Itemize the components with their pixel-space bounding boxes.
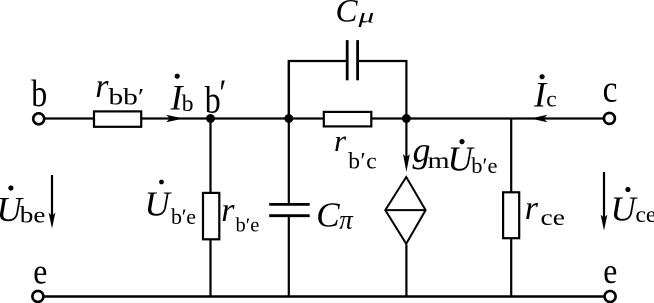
svg-text:r: r	[525, 190, 539, 227]
svg-text:ce: ce	[541, 204, 565, 231]
svg-text:U: U	[145, 185, 173, 224]
svg-text:b′e: b′e	[171, 204, 196, 229]
svg-text:ce: ce	[636, 202, 654, 228]
svg-text:b′e: b′e	[471, 153, 497, 178]
svg-text:c: c	[603, 68, 618, 110]
svg-text:r: r	[334, 123, 347, 158]
svg-text:b′c: b′c	[348, 148, 377, 174]
svg-text:bb′: bb′	[109, 83, 145, 110]
svg-text:be: be	[20, 201, 46, 228]
svg-text:e: e	[33, 253, 47, 292]
svg-text:b: b	[182, 91, 194, 117]
svg-text:r: r	[95, 68, 109, 105]
svg-text:μ: μ	[357, 3, 374, 27]
svg-text:r: r	[221, 192, 235, 229]
svg-text:C: C	[336, 0, 359, 29]
svg-text:π: π	[339, 205, 354, 235]
svg-text:c: c	[546, 86, 556, 112]
svg-text:b′e: b′e	[236, 215, 260, 237]
svg-text:e: e	[603, 252, 617, 291]
svg-text:b: b	[31, 72, 47, 114]
svg-text:m: m	[428, 147, 450, 173]
svg-text:U: U	[611, 189, 639, 228]
svg-text:′: ′	[219, 72, 226, 114]
svg-text:C: C	[316, 196, 340, 235]
svg-text:b: b	[205, 79, 221, 121]
